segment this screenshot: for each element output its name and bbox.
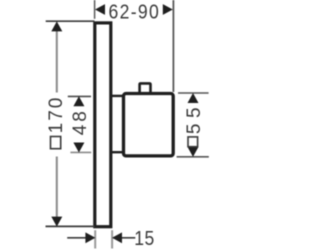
dim 170 top arrow	[51, 21, 62, 31]
dim 48 bottom arrow	[73, 143, 84, 153]
handle top tab	[140, 83, 151, 92]
dim 55 bottom extension line	[177, 156, 209, 158]
svg-text:48: 48	[70, 108, 91, 135]
svg-text:15: 15	[134, 227, 154, 249]
dim 48 top arrow	[73, 96, 84, 106]
dim 55 top arrow	[188, 93, 199, 103]
dim 15 left extension line	[94, 230, 96, 248]
dim 15 right leader line	[114, 237, 136, 239]
dim 15 left arrow	[85, 232, 95, 243]
dim 55 top extension line	[178, 92, 209, 94]
handle (side view)	[124, 94, 174, 156]
dim 170 top extension line	[46, 20, 95, 22]
svg-text:170: 170	[46, 96, 67, 134]
dim 15 right arrow	[112, 232, 122, 243]
dim 170 bottom arrow	[51, 217, 62, 227]
dim 170 label square	[51, 137, 61, 149]
dim 15 right extension line	[111, 230, 113, 248]
dim 55 bottom arrow	[188, 147, 199, 157]
dim 62-90 left extension line	[94, 0, 96, 19]
dim 48 top extension line	[68, 95, 91, 97]
dim 55 label square	[188, 137, 198, 147]
neck bottom edge	[111, 151, 124, 153]
svg-text:55: 55	[184, 102, 205, 134]
dim 170 bottom extension line	[46, 225, 95, 227]
dim 62-90 left arrow	[95, 4, 105, 15]
escutcheon plate (side view)	[95, 23, 111, 227]
dim 15 left leader line	[67, 237, 86, 239]
dim 170 line upper segment	[56, 30, 58, 93]
dim 48 bottom extension line	[70, 151, 91, 153]
dim 62-90 right arrow	[163, 4, 173, 15]
neck top edge	[111, 95, 124, 97]
dim 170 line lower segment	[56, 157, 58, 219]
svg-text:62-90: 62-90	[108, 1, 160, 23]
dim 62-90 right extension line	[172, 0, 174, 92]
